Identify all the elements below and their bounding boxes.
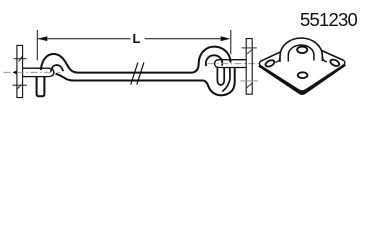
hook right end: rod bottom edge bends down into outer curl under pin — [203, 68, 234, 95]
svg-text:L: L — [133, 31, 141, 46]
right pin cylinder — [215, 60, 247, 68]
left pin screw tip — [13, 70, 17, 74]
right pin centerline — [208, 63, 259, 65]
eye plate front view: bottom face (thickness) — [258, 60, 346, 95]
rod break mark 1 — [131, 62, 138, 84]
bottom screw hole — [298, 72, 308, 78]
left plate lower screw slash — [17, 85, 22, 90]
staple left foot — [275, 58, 280, 63]
eye plate top-left edge redraw — [261, 42, 344, 61]
left plate lower screw slot — [12, 84, 27, 86]
eye plate front view: top face — [259, 42, 345, 91]
hook curled tip inner U — [217, 68, 224, 85]
hook eye lower band (below pin) — [37, 77, 45, 96]
left pin cylinder — [23, 68, 54, 76]
dimension line L right segment — [145, 38, 229, 40]
article number 551230 — [300, 9, 357, 31]
left plate upper screw slot — [14, 58, 27, 60]
right plate upper screw slash — [247, 49, 253, 54]
dimension extension line right — [230, 30, 232, 54]
left plate upper screw slash — [19, 57, 22, 62]
right plate upper screw slot — [242, 47, 257, 49]
left wall plate (side view) — [17, 45, 23, 97]
dimension extension line left — [36, 30, 38, 60]
dimension line L left segment — [38, 38, 131, 40]
right screw hole — [329, 58, 340, 67]
dimension arrowhead right — [221, 36, 231, 41]
staple outer — [280, 38, 322, 62]
left screw hole — [264, 59, 275, 68]
hook rod bottom edge start — [56, 74, 204, 81]
hook right end inner loop arc — [206, 55, 222, 66]
hook curled tip middle curve — [222, 68, 230, 92]
hook right end: rod top edge bends up into loop left side and over the top, down to pin — [192, 47, 231, 73]
rod break mark 2 — [137, 62, 144, 84]
left pin centerline — [4, 71, 61, 73]
dimension arrowhead left — [38, 36, 48, 41]
top screw hole seen through staple — [297, 47, 307, 54]
hook eye inner dome — [51, 65, 63, 72]
right wall plate (side view) — [246, 39, 252, 95]
staple right foot — [322, 57, 327, 62]
staple inner — [288, 45, 314, 62]
hook eye outer dome (left end) — [41, 54, 192, 73]
right plate lower screw slash — [247, 83, 252, 87]
right plate lower screw slot — [241, 80, 259, 82]
